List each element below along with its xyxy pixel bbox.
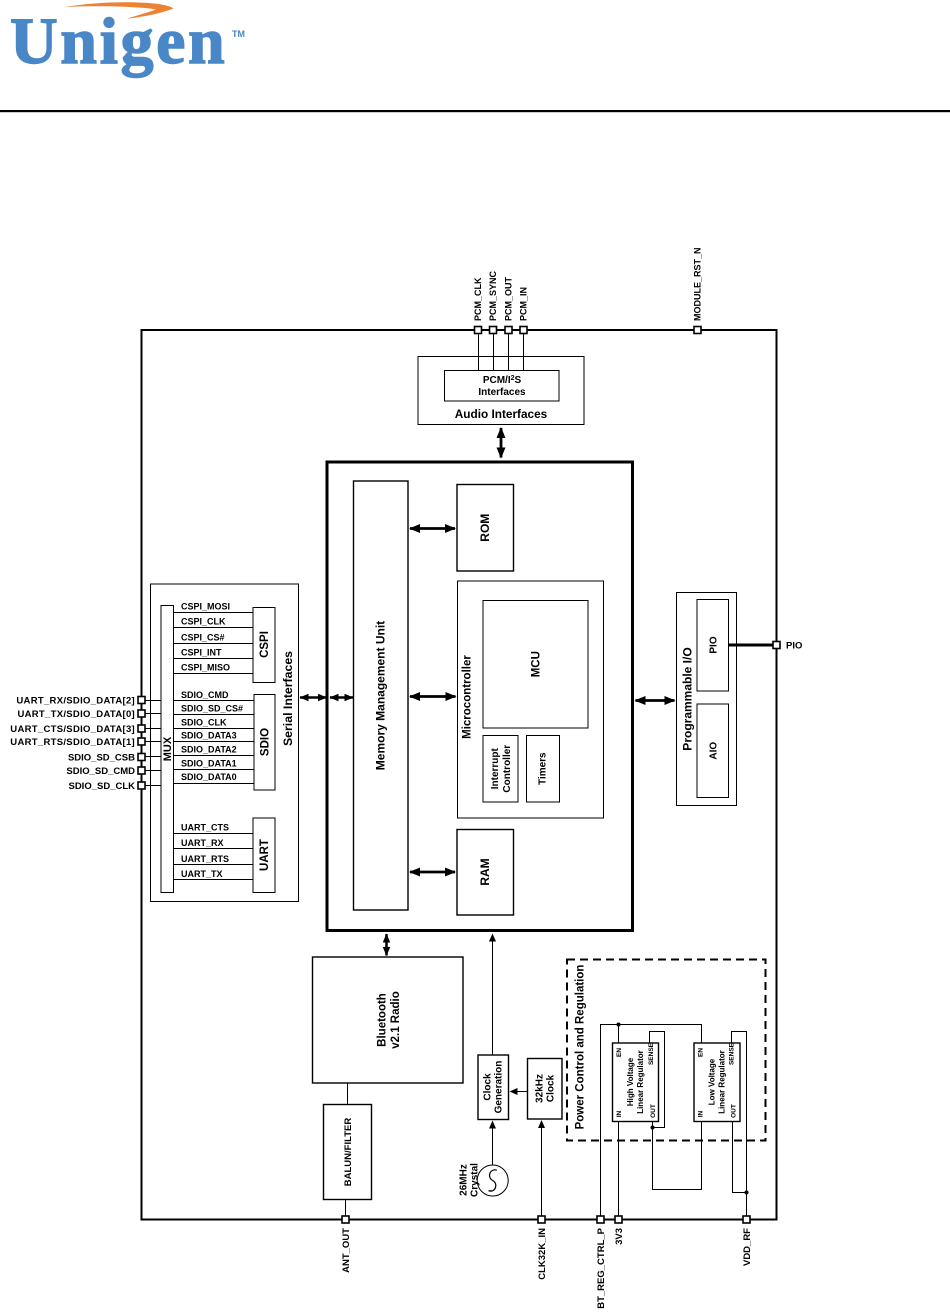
svg-text:BT_REG_CTRL_P: BT_REG_CTRL_P (596, 1227, 607, 1308)
svg-text:OUT: OUT (650, 1104, 657, 1118)
wire BALUN to ANT_OUT pin (345, 1200, 347, 1217)
svg-text:Memory Management Unit: Memory Management Unit (374, 621, 388, 770)
svg-text:MODULE_RST_N: MODULE_RST_N (693, 247, 703, 321)
svg-text:UART_TX: UART_TX (181, 869, 223, 879)
svg-text:MUX: MUX (162, 736, 174, 761)
svg-text:Programmable I/O: Programmable I/O (681, 647, 695, 750)
svg-text:Generation: Generation (493, 1061, 504, 1114)
svg-text:SDIO_CMD: SDIO_CMD (181, 690, 229, 700)
pin VDD_RF (742, 1216, 753, 1266)
block PIO (697, 600, 729, 692)
block Clock Generation (478, 1055, 509, 1120)
wire Clock Generation to core box (arrow up) (492, 935, 494, 1056)
pin MODULE_RST_N (693, 247, 703, 333)
junction dot EN tap (617, 1023, 621, 1027)
wire UART_TX (174, 869, 254, 880)
block MCU (483, 601, 588, 729)
arrow MMU to RAM (410, 871, 455, 874)
pin SDIO_SD_CSB (68, 753, 161, 764)
svg-text:PIO: PIO (786, 641, 802, 652)
svg-text:SENSE: SENSE (648, 1042, 655, 1065)
svg-text:EN: EN (698, 1048, 705, 1057)
wire BT_REG_CTRL_P up and across to EN pins (601, 1025, 702, 1217)
wire crystal to Clock Generation (arrow up) (492, 1122, 494, 1165)
block SDIO (254, 695, 275, 791)
wire LV OUT down to VDD_RF line (733, 1122, 747, 1193)
wire SDIO_DATA1 (174, 759, 255, 770)
svg-text:SDIO_SD_CSB: SDIO_SD_CSB (68, 753, 135, 764)
arrow core box to MMU (330, 696, 353, 699)
svg-text:UART_CTS/SDIO_DATA[3]: UART_CTS/SDIO_DATA[3] (10, 724, 135, 735)
wire CSPI_CS# (174, 633, 254, 644)
arrow Serial Interfaces to core box (300, 696, 327, 699)
svg-text:Timers: Timers (538, 752, 549, 785)
wire PCM_OUT to PCM/I2S (508, 334, 510, 371)
svg-text:ROM: ROM (478, 514, 492, 542)
module outer boundary box (142, 330, 777, 1220)
wire SDIO_DATA3 (174, 731, 255, 742)
svg-text:Interfaces: Interfaces (478, 387, 526, 398)
svg-text:UART_CTS: UART_CTS (181, 823, 229, 833)
svg-text:UART_TX/SDIO_DATA[0]: UART_TX/SDIO_DATA[0] (17, 709, 135, 720)
wire 32kHz Clock to Clock Generation (arrow left) (511, 1091, 528, 1093)
wire PCM_IN to PCM/I2S (523, 334, 525, 371)
svg-text:Clock: Clock (545, 1074, 556, 1102)
svg-text:CSPI_MOSI: CSPI_MOSI (181, 602, 230, 612)
svg-text:26MHz: 26MHz (458, 1164, 469, 1196)
svg-text:UART: UART (259, 839, 271, 871)
wire CSPI_MISO (174, 663, 254, 674)
pin PCM_OUT (504, 276, 514, 333)
block ROM (457, 485, 514, 572)
svg-text:Clock: Clock (482, 1073, 493, 1101)
wire SDIO_DATA2 (174, 745, 255, 756)
block BALUN/FILTER (324, 1105, 372, 1200)
wire EN tap to HV regulator (618, 1025, 620, 1044)
block Bluetooth v2.1 Radio (313, 957, 464, 1083)
svg-text:Audio Interfaces: Audio Interfaces (455, 407, 548, 421)
svg-text:Power Control and Regulation: Power Control and Regulation (575, 965, 587, 1130)
svg-text:CSPI_MISO: CSPI_MISO (181, 663, 230, 673)
svg-text:Unigen: Unigen (10, 5, 227, 78)
wire PCM_CLK to PCM/I2S (478, 334, 480, 371)
svg-text:SENSE: SENSE (729, 1042, 736, 1065)
wire CSPI_MOSI (174, 602, 254, 613)
svg-text:SDIO_DATA2: SDIO_DATA2 (181, 745, 237, 755)
pin PCM_IN (519, 287, 529, 334)
svg-text:PIO: PIO (708, 636, 719, 653)
svg-text:SDIO_SD_CLK: SDIO_SD_CLK (68, 781, 135, 792)
svg-text:Microcontroller: Microcontroller (462, 655, 474, 739)
pin UART_CTS/SDIO_DATA[3] (10, 724, 161, 735)
svg-text:IN: IN (698, 1110, 705, 1117)
svg-text:CSPI_CS#: CSPI_CS# (181, 633, 225, 643)
arrow MMU to ROM (410, 527, 455, 530)
pin UART_RX/SDIO_DATA[2] (16, 696, 161, 707)
arrow core box to Programmable I/O (636, 699, 675, 702)
Unigen logo swoosh (65, 2, 174, 18)
svg-text:Linear Regulator: Linear Regulator (636, 1050, 645, 1114)
svg-text:PCM_OUT: PCM_OUT (504, 276, 514, 321)
pin PIO (773, 641, 802, 652)
svg-text:UART_RTS/SDIO_DATA[1]: UART_RTS/SDIO_DATA[1] (10, 737, 135, 748)
svg-text:TM: TM (232, 29, 245, 39)
block Programmable I/O (677, 593, 737, 806)
svg-text:PCM/I2S: PCM/I2S (483, 375, 522, 386)
block Memory Management Unit (354, 481, 409, 910)
block MUX (161, 606, 174, 893)
svg-text:CSPI: CSPI (259, 631, 271, 658)
wire SDIO_CMD (174, 690, 255, 701)
pin BT_REG_CTRL_P (596, 1216, 607, 1309)
svg-text:SDIO_SD_CMD: SDIO_SD_CMD (66, 766, 135, 777)
svg-text:PCM_IN: PCM_IN (519, 287, 529, 321)
svg-text:CLK32K_IN: CLK32K_IN (537, 1228, 548, 1280)
svg-text:PCM_SYNC: PCM_SYNC (488, 270, 498, 321)
block Timers (527, 736, 560, 803)
wire 3V3 pin to HV regulator IN (618, 1122, 620, 1217)
svg-text:EN: EN (616, 1048, 623, 1057)
junction dot LV OUT/SENSE (745, 1191, 749, 1195)
svg-text:SDIO_SD_CS#: SDIO_SD_CS# (181, 704, 243, 714)
block Microcontroller (458, 581, 604, 818)
block UART (253, 818, 275, 893)
svg-text:MCU: MCU (531, 651, 543, 677)
block Low Voltage Linear Regulator (694, 1042, 740, 1121)
wire UART_RTS (174, 854, 254, 865)
wire SDIO_CLK (174, 718, 255, 729)
wire CLK32K_IN pin to 32kHz Clock (arrow up) (541, 1121, 543, 1216)
pin ANT_OUT (341, 1216, 352, 1273)
wire SDIO_SD_CS# (174, 704, 255, 715)
svg-text:AIO: AIO (708, 742, 719, 760)
block Serial Interfaces (151, 584, 299, 902)
svg-text:SDIO_DATA3: SDIO_DATA3 (181, 731, 237, 741)
pin CLK32K_IN (537, 1216, 548, 1280)
header rule (0, 110, 950, 112)
wire PIO to pin (729, 644, 774, 647)
svg-text:v2.1 Radio: v2.1 Radio (390, 991, 402, 1049)
block RAM (457, 830, 514, 916)
svg-text:Serial Interfaces: Serial Interfaces (281, 651, 295, 746)
block High Voltage Linear Regulator (613, 1042, 659, 1121)
svg-text:Interrupt: Interrupt (490, 747, 501, 789)
svg-text:ANT_OUT: ANT_OUT (341, 1228, 352, 1273)
pin 3V3 (614, 1216, 625, 1245)
wire Bluetooth Radio to BALUN (347, 1083, 349, 1105)
svg-text:High Voltage: High Voltage (626, 1057, 635, 1106)
svg-text:BALUN/FILTER: BALUN/FILTER (343, 1118, 354, 1187)
dashed box Power Control and Regulation (567, 960, 766, 1141)
block 32kHz Clock (528, 1059, 563, 1120)
block Interrupt Controller (483, 736, 518, 803)
arrow MMU to Microcontroller (410, 695, 456, 698)
wire UART_RX (174, 838, 254, 849)
svg-text:CSPI_CLK: CSPI_CLK (181, 617, 226, 627)
pin UART_RTS/SDIO_DATA[1] (10, 737, 161, 748)
svg-text:32kHz: 32kHz (534, 1074, 545, 1103)
svg-text:SDIO_DATA1: SDIO_DATA1 (181, 759, 237, 769)
svg-text:VDD_RF: VDD_RF (742, 1228, 753, 1266)
pin SDIO_SD_CMD (66, 766, 161, 777)
svg-text:PCM_CLK: PCM_CLK (473, 277, 483, 321)
pin SDIO_SD_CLK (68, 781, 161, 792)
svg-text:OUT: OUT (731, 1104, 738, 1118)
wire HV OUT to LV IN (653, 1122, 702, 1190)
block AIO (697, 704, 729, 798)
svg-text:SDIO_DATA0: SDIO_DATA0 (181, 772, 237, 782)
svg-text:Crystal: Crystal (469, 1163, 480, 1197)
wire PCM_SYNC to PCM/I2S (493, 334, 495, 371)
26MHz crystal symbol (458, 1163, 508, 1197)
svg-text:IN: IN (616, 1110, 623, 1117)
wire SDIO_DATA0 (174, 772, 255, 784)
wire CSPI_CLK (174, 617, 254, 628)
wire LV SENSE loop to VDD_RF (732, 1032, 747, 1217)
svg-text:SDIO_CLK: SDIO_CLK (181, 718, 227, 728)
svg-text:3V3: 3V3 (614, 1228, 625, 1245)
pin PCM_CLK (473, 277, 483, 334)
svg-text:Controller: Controller (502, 745, 513, 793)
svg-text:Linear Regulator: Linear Regulator (718, 1050, 727, 1114)
CPU core box (thick) (327, 462, 633, 931)
arrow core box to Bluetooth Radio (385, 934, 388, 956)
svg-text:UART_RX: UART_RX (181, 838, 224, 848)
pin PCM_SYNC (488, 270, 498, 333)
svg-text:RAM: RAM (478, 858, 492, 885)
svg-text:Bluetooth: Bluetooth (377, 993, 389, 1047)
pin UART_TX/SDIO_DATA[0] (17, 709, 161, 720)
block CSPI (253, 608, 275, 683)
junction dot HV OUT/SENSE (651, 1126, 655, 1130)
wire HV SENSE loop (650, 1032, 665, 1128)
svg-text:UART_RX/SDIO_DATA[2]: UART_RX/SDIO_DATA[2] (16, 696, 135, 707)
wire CSPI_INT (174, 648, 254, 659)
svg-text:CSPI_INT: CSPI_INT (181, 648, 222, 658)
svg-text:SDIO: SDIO (260, 728, 272, 756)
block PCM/I2S Interfaces (445, 371, 560, 402)
svg-text:Low Voltage: Low Voltage (708, 1058, 717, 1105)
svg-text:UART_RTS: UART_RTS (181, 854, 229, 864)
block Audio Interfaces (418, 357, 584, 425)
wire UART_CTS (174, 823, 254, 834)
arrow Audio Interfaces to CPU core box (500, 428, 503, 458)
